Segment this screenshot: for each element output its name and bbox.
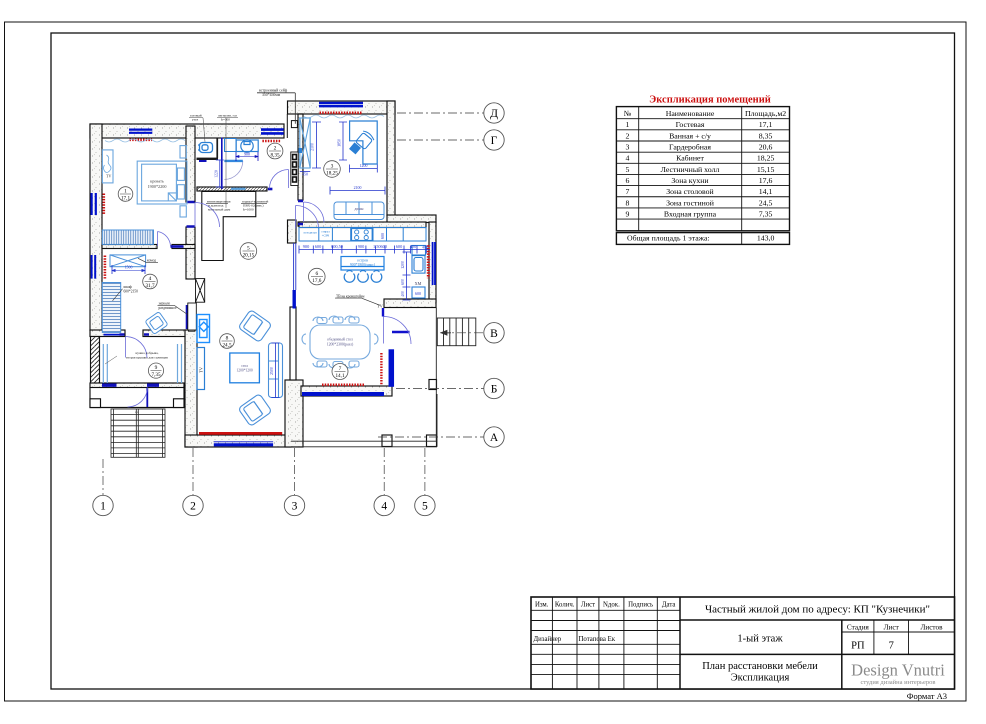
porch outline xyxy=(90,388,184,408)
dim 1500 komod xyxy=(112,269,145,271)
curtain wave bedroom xyxy=(105,139,185,142)
explication table grid xyxy=(616,107,789,245)
svg-text:Design Vnutri: Design Vnutri xyxy=(851,661,945,680)
door arc bathroom xyxy=(270,170,289,189)
cabinet blue ottoman xyxy=(349,142,361,154)
dim 900 sink xyxy=(236,155,258,157)
bathroom partition blue xyxy=(221,138,223,190)
svg-text:7,35: 7,35 xyxy=(151,372,160,378)
svg-text:1850: 1850 xyxy=(338,139,342,147)
bathroom door leaf and arc xyxy=(224,161,243,180)
outdoor stair south-west xyxy=(111,409,165,457)
svg-text:1200*1200: 1200*1200 xyxy=(237,369,253,373)
svg-text:20,6: 20,6 xyxy=(759,143,773,152)
axis circle 3 xyxy=(284,495,304,515)
bathroom door leaf (open) xyxy=(224,160,243,162)
svg-text:7: 7 xyxy=(626,187,630,196)
axis circle 4 xyxy=(374,495,394,515)
living/dining divider wall lower xyxy=(285,380,303,447)
exterior wall cabinet top xyxy=(288,101,396,114)
svg-text:20,15: 20,15 xyxy=(243,253,255,259)
axis circle В xyxy=(484,323,504,343)
svg-text:остров: остров xyxy=(357,259,368,263)
svg-text:Изм.: Изм. xyxy=(535,602,549,609)
axis line Г xyxy=(397,139,484,141)
window kitchen right xyxy=(433,242,435,285)
bedroom bottom wall xyxy=(102,245,157,249)
svg-text:7: 7 xyxy=(339,366,342,372)
hall-dining jamb wall xyxy=(383,308,410,332)
svg-text:Б: Б xyxy=(491,384,498,396)
svg-text:Колич.: Колич. xyxy=(555,602,575,609)
svg-text:Зона гостиной: Зона гостиной xyxy=(666,198,714,207)
svg-text:Гостевая: Гостевая xyxy=(676,120,705,129)
svg-text:600: 600 xyxy=(401,279,405,285)
exterior wall top-left block xyxy=(90,124,284,138)
svg-text:Площадь,м2: Площадь,м2 xyxy=(745,109,786,118)
entry closet column of squares xyxy=(291,152,298,186)
interior wall below cabinet xyxy=(299,222,426,228)
kitchen right vertical dims xyxy=(403,252,411,300)
entry arrow on axis В xyxy=(441,330,451,335)
door arc entrance outer xyxy=(128,388,148,408)
axis line 5 xyxy=(424,448,426,495)
svg-text:600: 600 xyxy=(396,244,402,249)
svg-text:450: 450 xyxy=(302,173,308,177)
door arc bedroom (from corridor) xyxy=(158,232,171,247)
svg-text:Ь=1000: Ь=1000 xyxy=(243,208,254,212)
exterior wall left xyxy=(90,124,102,331)
glass portal dining right xyxy=(389,349,395,387)
dim 1850 cabinet vertical xyxy=(339,122,347,160)
svg-text:А: А xyxy=(490,432,499,444)
door arc hall to bedroom-corridor xyxy=(195,203,220,228)
svg-text:1500: 1500 xyxy=(125,265,133,269)
svg-text:8: 8 xyxy=(626,198,630,207)
svg-text:стол: стол xyxy=(241,364,248,368)
room circle 6 kitchen xyxy=(309,268,326,285)
svg-text:Экспликация: Экспликация xyxy=(731,673,790,684)
svg-text:143,0: 143,0 xyxy=(757,234,775,243)
svg-text:4: 4 xyxy=(381,501,387,513)
svg-text:шкаф: шкаф xyxy=(124,285,133,289)
axis circle 1 xyxy=(93,495,113,515)
svg-text:4: 4 xyxy=(626,154,630,163)
room circle 8 living xyxy=(220,334,235,349)
axis line Д xyxy=(397,112,484,114)
svg-text:1: 1 xyxy=(626,120,630,129)
svg-text:1900*2200: 1900*2200 xyxy=(148,184,167,189)
warm floor line living bottom (solid red) xyxy=(199,432,282,435)
axis line 1 xyxy=(102,459,104,495)
wall edge below cabinet top wall xyxy=(286,114,288,138)
terrace east edge xyxy=(435,308,437,442)
window-door dining bottom xyxy=(302,392,384,396)
axis circle Б xyxy=(484,378,504,398)
dim 2100 sofa xyxy=(330,187,385,195)
svg-text:Экспликация помещений: Экспликация помещений xyxy=(649,95,771,106)
svg-text:1200: 1200 xyxy=(401,261,405,269)
title block small captions xyxy=(534,602,676,644)
cooktop xyxy=(352,229,373,241)
svg-text:узел: узел xyxy=(192,118,199,122)
svg-text:План расстановки мебели: План расстановки мебели xyxy=(702,661,818,672)
radiator left wall upper xyxy=(103,194,106,216)
svg-text:600*2150: 600*2150 xyxy=(124,290,139,294)
sliding door blue leaf xyxy=(186,305,188,329)
bathroom bottom wall xyxy=(197,187,267,191)
svg-text:РП: РП xyxy=(851,641,865,652)
WC door small leaf xyxy=(199,160,207,162)
svg-text:2: 2 xyxy=(274,146,277,152)
svg-text:Зона столовой: Зона столовой xyxy=(666,187,713,196)
dining table oval with chairs xyxy=(302,316,378,368)
svg-text:1200: 1200 xyxy=(360,164,368,168)
svg-text:раздвижное: раздвижное xyxy=(159,306,177,310)
svg-text:9: 9 xyxy=(155,365,158,371)
svg-text:15,15: 15,15 xyxy=(757,165,775,174)
svg-text:17,6: 17,6 xyxy=(759,176,773,185)
svg-text:3: 3 xyxy=(292,501,298,513)
window living bottom xyxy=(214,443,273,446)
window left wall upper xyxy=(92,193,96,215)
svg-text:ХМ: ХМ xyxy=(415,281,422,286)
svg-text:TV: TV xyxy=(199,366,204,373)
svg-text:2500: 2500 xyxy=(270,367,274,375)
living couch xyxy=(269,343,283,398)
svg-text:Гардеробная: Гардеробная xyxy=(669,143,711,152)
axis circle 2 xyxy=(183,495,203,515)
svg-text:24,5: 24,5 xyxy=(222,343,231,349)
door jambs (blue) various xyxy=(120,189,304,335)
axis circle А xyxy=(484,427,504,447)
svg-text:400: 400 xyxy=(401,291,405,297)
axis circle Д xyxy=(484,103,504,123)
svg-text:4: 4 xyxy=(149,276,152,282)
svg-text:Nдок.: Nдок. xyxy=(603,602,620,609)
cabinet desk L-shape xyxy=(350,121,378,164)
sliding door pocket xyxy=(188,303,197,330)
svg-text:котельный дым: котельный дым xyxy=(208,208,231,212)
doorway to hall light blue xyxy=(231,188,246,190)
svg-text:Г: Г xyxy=(491,135,498,147)
svg-text:8: 8 xyxy=(226,336,229,342)
axis circle 5 xyxy=(415,495,435,515)
svg-text:1-ый этаж: 1-ый этаж xyxy=(737,634,783,645)
svg-text:TV: TV xyxy=(106,174,111,179)
svg-text:комод: комод xyxy=(147,259,156,263)
svg-text:5: 5 xyxy=(422,501,428,513)
svg-text:вх.: вх. xyxy=(135,410,139,414)
svg-text:Дата: Дата xyxy=(662,602,676,609)
radiator left wall lower xyxy=(104,256,107,279)
svg-text:17,6: 17,6 xyxy=(312,278,321,284)
living fireplace xyxy=(197,315,210,343)
living room bottom wall xyxy=(185,435,291,447)
svg-text:Лист: Лист xyxy=(884,624,900,632)
bed pillows xyxy=(177,168,184,180)
door arc entrance inner xyxy=(126,337,148,359)
svg-text:400: 400 xyxy=(410,244,416,249)
bedside table top xyxy=(180,146,186,158)
svg-text:17,1: 17,1 xyxy=(759,120,773,129)
svg-text:Наименование: Наименование xyxy=(666,109,715,118)
cabinet wardrobe with X xyxy=(299,118,311,168)
svg-text:Ванная + с/у: Ванная + с/у xyxy=(669,131,711,140)
svg-text:14,1: 14,1 xyxy=(335,373,344,379)
axis circle Г xyxy=(484,130,504,150)
living coffee table xyxy=(230,353,260,383)
island stools xyxy=(344,271,382,283)
svg-text:9: 9 xyxy=(626,209,630,218)
svg-text:600: 600 xyxy=(380,233,385,239)
svg-text:+СВЧ: +СВЧ xyxy=(322,234,330,238)
stair opening outline in hall xyxy=(202,192,256,261)
exterior wall kitchen right xyxy=(429,222,436,302)
cabinet chair rotated xyxy=(355,130,375,150)
door arc hall to kitchen xyxy=(296,206,319,229)
svg-text:14,1: 14,1 xyxy=(759,187,773,196)
svg-text:вторая крышка для саженцев: вторая крышка для саженцев xyxy=(126,356,168,360)
svg-text:В: В xyxy=(490,328,498,340)
svg-text:Входная группа: Входная группа xyxy=(664,209,717,218)
svg-text:8,35: 8,35 xyxy=(270,153,279,159)
porch corner post left xyxy=(90,399,101,408)
svg-text:7,35: 7,35 xyxy=(759,209,773,218)
svg-text:900*1800(макс): 900*1800(макс) xyxy=(350,263,376,267)
dim 1220 lobby xyxy=(216,160,224,187)
kitchen/hall glass partition xyxy=(294,243,296,290)
svg-text:Лист: Лист xyxy=(581,602,595,609)
title block left grid columns xyxy=(531,597,680,689)
window bedroom top xyxy=(129,130,152,133)
radiator dining right xyxy=(380,353,382,385)
tall wardrobe 600x2150 xyxy=(102,283,120,333)
bedside table bottom xyxy=(180,206,186,217)
svg-text:350*450мм: 350*450мм xyxy=(262,93,281,97)
entrance room side windows xyxy=(103,344,181,383)
svg-text:900: 900 xyxy=(358,244,364,249)
exterior wall kitchen bottom-right xyxy=(384,299,436,308)
glass door kitchen-dining xyxy=(293,290,296,309)
svg-text:3: 3 xyxy=(626,143,630,152)
entrance block bottom wall xyxy=(90,383,184,388)
svg-text:холодильн: холодильн xyxy=(303,231,317,235)
small wall box near sliding door xyxy=(188,326,195,332)
axis line 4 xyxy=(383,448,385,495)
svg-text:17,1: 17,1 xyxy=(121,196,130,202)
svg-text:1200*2300(разл): 1200*2300(разл) xyxy=(327,343,354,347)
svg-text:Листов: Листов xyxy=(921,624,944,632)
built-in safe box xyxy=(291,121,297,128)
svg-text:18,25: 18,25 xyxy=(757,154,775,163)
title block outline xyxy=(531,597,955,689)
terrace bottom edge lines xyxy=(291,394,437,447)
dining bottom wall xyxy=(301,386,392,396)
living room left wall xyxy=(185,330,197,447)
terrace posts on axis А xyxy=(382,435,392,447)
svg-text:6: 6 xyxy=(626,176,630,185)
dim 2100 cabinet vertical xyxy=(312,122,321,168)
door arc cabinet xyxy=(304,202,325,223)
komod crossed chest xyxy=(110,255,146,267)
svg-text:600: 600 xyxy=(415,291,421,296)
bed 1900x2200 xyxy=(137,161,187,204)
svg-text:5: 5 xyxy=(626,165,630,174)
svg-text:900: 900 xyxy=(244,152,250,156)
entrance block left wall (cold, hatched) xyxy=(91,337,100,386)
svg-text:1: 1 xyxy=(100,501,106,513)
svg-text:ТВ на кронштейне: ТВ на кронштейне xyxy=(336,294,365,298)
svg-text:900: 900 xyxy=(303,244,309,249)
radiator dining bottom (dotted) xyxy=(322,383,365,386)
svg-text:обеденный стол: обеденный стол xyxy=(327,338,353,342)
svg-text:2: 2 xyxy=(190,501,196,513)
svg-text:№: № xyxy=(624,109,631,118)
bedroom TV unit with guitar xyxy=(102,150,113,183)
outdoor stair east (to terrace door) xyxy=(437,318,476,346)
wall between hall and cabinet (left wall of cabinet) xyxy=(298,114,303,226)
sink cabinet xyxy=(236,140,258,152)
svg-text:18,25: 18,25 xyxy=(326,171,338,177)
kitchen counter row xyxy=(299,228,426,242)
svg-text:3: 3 xyxy=(331,164,334,170)
exterior wall step (cabinet to kitchen) xyxy=(387,215,436,223)
svg-text:600: 600 xyxy=(315,244,321,249)
room circle 4 cabinet xyxy=(324,161,341,178)
entrance door blue leafs xyxy=(102,384,159,387)
svg-text:Лестничный холл: Лестничный холл xyxy=(661,165,720,174)
wall bedroom/hall divider upper xyxy=(186,126,195,202)
radiator cabinet top xyxy=(320,112,363,115)
svg-text:Стадия: Стадия xyxy=(847,624,870,632)
svg-text:1: 1 xyxy=(124,189,127,195)
axis line А xyxy=(378,436,485,438)
svg-text:7: 7 xyxy=(889,641,894,652)
kitchen dim chain xyxy=(299,249,430,251)
title block right section dividers xyxy=(680,597,955,689)
svg-text:диван: диван xyxy=(355,207,364,211)
dim 450 xyxy=(300,171,310,173)
svg-text:Частный жилой дом по адресу: К: Частный жилой дом по адресу: КП "Кузнечи… xyxy=(705,604,930,616)
radiator kitchen right xyxy=(427,245,430,278)
entrance door open leaf xyxy=(146,388,148,408)
svg-text:встроенный сейф: встроенный сейф xyxy=(259,89,288,93)
door arc terrace entry xyxy=(384,317,412,345)
axis line Б xyxy=(396,388,485,390)
room circle 9 entrance xyxy=(148,363,163,378)
fridge column xyxy=(412,246,426,299)
corridor armchair (rotated) xyxy=(145,312,168,335)
svg-text:Подпись: Подпись xyxy=(628,602,653,609)
svg-text:Зона кухни: Зона кухни xyxy=(671,176,708,185)
svg-text:2: 2 xyxy=(626,131,630,140)
svg-text:1220: 1220 xyxy=(215,170,219,178)
axis line 2 xyxy=(192,448,194,495)
svg-text:Кабинет: Кабинет xyxy=(676,154,704,163)
curtain wave cabinet xyxy=(304,115,384,118)
window wardrobe-room bottom xyxy=(104,331,121,334)
living armchair upper xyxy=(238,310,272,343)
svg-text:кровать: кровать xyxy=(150,179,164,184)
svg-text:6: 6 xyxy=(315,271,318,277)
dim 1200 desk xyxy=(350,165,378,173)
chimney column with X xyxy=(196,279,205,303)
wall bedroom/hall divider lower xyxy=(186,227,195,279)
cabinet sofa xyxy=(334,202,384,220)
svg-text:Д: Д xyxy=(490,108,498,120)
porch corner post right xyxy=(174,399,185,408)
wardrobe block bottom wall xyxy=(90,330,125,337)
built-in safe window xyxy=(261,130,284,134)
living/dining divider wall upper xyxy=(290,307,296,380)
living armchair lower xyxy=(238,394,272,427)
svg-text:Дизайнер: Дизайнер xyxy=(534,636,562,643)
svg-text:Общая площадь 1 этажа:: Общая площадь 1 этажа: xyxy=(627,234,710,243)
radiator below safe xyxy=(262,140,281,142)
dining SE corner post xyxy=(429,380,437,390)
window left wall lower xyxy=(92,255,96,279)
radiator bedroom top (dotted) xyxy=(130,139,153,142)
axis line В xyxy=(440,332,485,334)
wardrobe strip below bed wall xyxy=(102,230,153,244)
svg-text:Потапова Ек: Потапова Ек xyxy=(579,636,616,643)
kitchen left wall stub xyxy=(288,220,297,243)
living TV xyxy=(197,348,205,390)
svg-text:31,7: 31,7 xyxy=(145,283,154,289)
room circle wardrobe corridor xyxy=(143,274,158,289)
explication table text xyxy=(624,109,787,243)
svg-text:студия дизайна интерьеров: студия дизайна интерьеров xyxy=(861,679,936,686)
svg-text:5: 5 xyxy=(247,246,250,252)
washing machine xyxy=(225,139,237,152)
room circle 2 bathroom xyxy=(267,143,283,159)
svg-text:400: 400 xyxy=(422,245,428,249)
window cabinet top xyxy=(319,103,363,106)
toilet WC xyxy=(198,143,213,153)
room circle 1 guest bedroom xyxy=(118,187,133,202)
WC partition walls xyxy=(216,138,218,158)
room circle 5 stair hall xyxy=(240,243,257,260)
dim 2500 couch xyxy=(271,343,279,398)
room circle 7 dining xyxy=(332,364,348,380)
svg-text:8,35: 8,35 xyxy=(759,131,773,140)
exterior wall cabinet right xyxy=(387,101,395,216)
svg-text:Формат А3: Формат А3 xyxy=(907,691,947,701)
svg-text:2100: 2100 xyxy=(354,186,362,190)
svg-text:Ь=300: Ь=300 xyxy=(221,118,230,122)
axis line 3 xyxy=(294,448,296,495)
svg-text:24,5: 24,5 xyxy=(759,198,773,207)
kitchen island xyxy=(341,257,384,271)
svg-text:2100: 2100 xyxy=(311,143,315,151)
